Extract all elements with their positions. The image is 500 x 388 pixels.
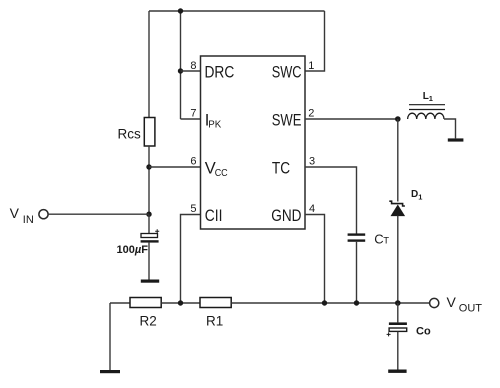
pin number 3 (309, 156, 315, 168)
wire input cap to ground (148, 243, 150, 280)
svg-text:6: 6 (190, 156, 196, 168)
resistor R1 (200, 298, 231, 308)
svg-text:5: 5 (190, 203, 196, 215)
pin number 6 (190, 156, 196, 168)
ground (input cap) (141, 280, 159, 283)
svg-text:V: V (447, 294, 457, 310)
svg-text:R1: R1 (206, 314, 223, 329)
label R2 (140, 314, 157, 329)
svg-text:3: 3 (309, 156, 315, 168)
pin label Vcc (205, 159, 228, 179)
node bus/GND pin4 junction (322, 300, 327, 305)
capacitor 100uF (polarized input cap) (141, 229, 160, 242)
svg-text:V: V (10, 205, 20, 221)
capacitor CT (348, 233, 366, 241)
wire R2 left leg to ground (109, 303, 111, 370)
wire junction down to diode D1 (397, 119, 399, 202)
pin label Ipk (205, 111, 222, 130)
svg-text:7: 7 (190, 108, 196, 120)
wire pin 5 stub and vertical to bottom bus (181, 215, 201, 304)
ground (L1) (448, 138, 464, 141)
resistor R2 (130, 298, 161, 308)
label D1 (411, 189, 422, 202)
pin number 7 (190, 108, 196, 120)
terminal Vin (39, 210, 48, 219)
label V OUT (447, 294, 483, 315)
svg-text:D: D (411, 189, 418, 200)
svg-text:DRC: DRC (205, 64, 235, 82)
svg-text:SWC: SWC (272, 64, 302, 82)
wire bottom bus R1 to Vout (231, 302, 429, 304)
wire diode to bottom bus (397, 216, 399, 303)
wire pin 6 stub from left rail (149, 166, 201, 168)
svg-text:GND: GND (271, 207, 301, 225)
svg-text:Rcs: Rcs (118, 127, 141, 142)
wire pin 7 stub (181, 118, 201, 120)
wire R2 to R1 (161, 302, 200, 304)
pin label TC (272, 159, 290, 177)
terminal Vout (430, 298, 439, 307)
svg-text:100µF: 100µF (117, 244, 149, 256)
op-amp U1 (IC box) (201, 56, 306, 229)
label Co (416, 325, 431, 337)
svg-text:IN: IN (23, 214, 34, 226)
wire pin 8 stub (181, 70, 201, 72)
wire CT to bottom bus (356, 242, 358, 303)
svg-text:C: C (374, 232, 383, 247)
pin label GND (271, 207, 301, 225)
svg-text:T: T (383, 236, 389, 247)
svg-text:2: 2 (308, 108, 314, 120)
svg-text:TC: TC (272, 159, 290, 177)
svg-text:CC: CC (215, 167, 228, 179)
wire junction down to Co (397, 303, 399, 322)
wire L1 to ground (444, 119, 456, 138)
label 100uF (117, 244, 149, 256)
ground (R2 leg) (100, 370, 120, 373)
svg-text:4: 4 (309, 203, 315, 215)
label Rcs (118, 127, 141, 142)
node pin8 junction (178, 68, 183, 73)
ground (Co) (388, 370, 406, 373)
wire TC pin 3 to CT (305, 167, 357, 234)
node SWE/L1/D1 junction (395, 116, 401, 122)
label L1 (423, 91, 433, 103)
svg-text:Co: Co (416, 325, 431, 337)
wire left rail to input cap (148, 214, 150, 233)
wire left rail vertical (top to Rcs) (148, 11, 150, 118)
wire pin7/8 rail vertical (180, 11, 182, 119)
svg-text:R2: R2 (140, 314, 157, 329)
node bus/CII junction (178, 300, 183, 305)
svg-text:8: 8 (190, 60, 196, 72)
label R1 (206, 314, 223, 329)
label CT (374, 232, 389, 247)
wire left rail vertical (Rcs to Vin junction) (148, 146, 150, 214)
wire Vin to left rail (48, 213, 149, 215)
svg-text:1: 1 (429, 94, 433, 103)
node bus/D1/Co junction (395, 300, 401, 306)
pin number 1 (308, 60, 314, 72)
svg-text:PK: PK (208, 118, 221, 130)
node Vin junction on left rail (146, 212, 151, 217)
wire GND pin 4 to bottom bus (305, 215, 325, 304)
wire bottom bus left segment to R2 (110, 302, 130, 304)
svg-text:SWE: SWE (272, 111, 302, 129)
wire pin 1 stub and vertical to top bus (305, 11, 325, 71)
svg-text:1: 1 (418, 193, 422, 202)
label V IN (10, 205, 34, 226)
pin label SWC (272, 64, 302, 82)
pin number 8 (190, 60, 196, 72)
svg-text:CII: CII (205, 207, 223, 225)
node bus/CT junction (354, 300, 359, 305)
pin label DRC (205, 64, 235, 82)
inductor L1 (coil with core bars) (408, 105, 445, 119)
node Vcc junction on left rail (146, 164, 151, 169)
pin number 2 (308, 108, 314, 120)
wire Co to ground (397, 332, 399, 370)
diode D1 (schottky, pointing up) (389, 201, 405, 215)
pin number 5 (190, 203, 196, 215)
node top junction (178, 8, 183, 13)
pin label SWE (272, 111, 302, 129)
wire top bus from left rail to pin1 rail (149, 10, 325, 12)
wire SWE pin 2 to L1 junction (305, 118, 398, 120)
capacitor Co (polarized output cap) (387, 322, 407, 336)
pin number 4 (309, 203, 315, 215)
svg-text:1: 1 (308, 60, 314, 72)
svg-text:OUT: OUT (459, 303, 483, 315)
resistor Rcs (144, 118, 155, 147)
pin label CII (205, 207, 223, 225)
